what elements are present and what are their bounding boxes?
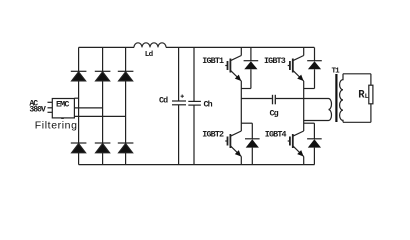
- svg-text:Cd: Cd: [159, 96, 168, 106]
- svg-text:Cg: Cg: [270, 108, 279, 118]
- wire AC stub 3: [48, 111, 53, 113]
- wire rectifier column 1: [78, 47, 80, 164]
- artifact notch below EMC box: [61, 118, 64, 120]
- diode D-upper-3: [118, 71, 134, 81]
- translation overlay white box: [33, 119, 78, 133]
- wire AC stub 1: [48, 101, 53, 103]
- capacitor Ch: [188, 47, 201, 164]
- node phase line 3 (EMC to column 3): [74, 115, 125, 117]
- diode D1 (IGBT1 freewheel): [241, 47, 258, 88]
- wire node A to Cg: [241, 98, 272, 100]
- svg-text:IGBT4: IGBT4: [265, 130, 287, 140]
- wire rectifier column 3: [125, 47, 127, 164]
- svg-text:IGBT1: IGBT1: [202, 56, 224, 66]
- wire Cg to primary top: [276, 98, 329, 100]
- svg-text:Filtering: Filtering: [35, 119, 78, 131]
- diode D-lower-3: [118, 143, 134, 153]
- transistor Q3 IGBT3: [288, 47, 304, 131]
- wire top rail right (inductor to D3 branch): [166, 46, 314, 48]
- diode D4 (IGBT4 freewheel): [304, 123, 322, 164]
- resistor RL: [369, 85, 373, 104]
- diode D-lower-2: [95, 143, 111, 153]
- diode D2 (IGBT2 freewheel): [241, 123, 259, 164]
- wire AC stub 2: [48, 107, 53, 109]
- transistor Q2 IGBT2: [225, 131, 241, 165]
- svg-text:RL: RL: [358, 90, 368, 102]
- wire bottom rail: [79, 164, 315, 166]
- EMC filter box: [52, 99, 74, 118]
- node phase line 2 (EMC to column 2): [74, 107, 102, 109]
- svg-text:380V: 380V: [29, 106, 46, 115]
- transformer T1 secondary winding: [340, 74, 343, 123]
- node phase line 1 (EMC to column 1): [74, 97, 78, 99]
- diode D-upper-2: [95, 71, 111, 81]
- svg-text:IGBT2: IGBT2: [202, 130, 224, 140]
- capacitor Cd: [172, 47, 186, 164]
- transistor Q1 IGBT1: [225, 47, 241, 131]
- transformer T1 core: [335, 74, 337, 122]
- svg-text:Ch: Ch: [204, 99, 213, 109]
- inductor Ld: [134, 43, 166, 48]
- diode D-lower-1: [71, 143, 87, 153]
- wire top rail left (rectifier top to inductor): [79, 46, 134, 48]
- svg-text:IGBT3: IGBT3: [264, 56, 286, 66]
- wire primary bottom lead: [304, 120, 329, 122]
- capacitor Cg: [273, 95, 276, 105]
- transformer T1 primary winding: [329, 99, 332, 121]
- wire RL branch bottom: [370, 104, 372, 123]
- wire RL branch top: [370, 74, 372, 85]
- transistor Q4 IGBT4: [288, 131, 304, 165]
- wire rectifier column 2: [102, 47, 104, 164]
- svg-text:EMC: EMC: [56, 99, 69, 109]
- svg-text:Ld: Ld: [145, 51, 154, 59]
- wire secondary bottom lead: [343, 121, 371, 123]
- diode D-upper-1: [71, 71, 87, 81]
- diode D3 (IGBT3 freewheel): [304, 47, 322, 88]
- svg-text:T1: T1: [332, 68, 341, 76]
- wire secondary top lead: [343, 73, 371, 75]
